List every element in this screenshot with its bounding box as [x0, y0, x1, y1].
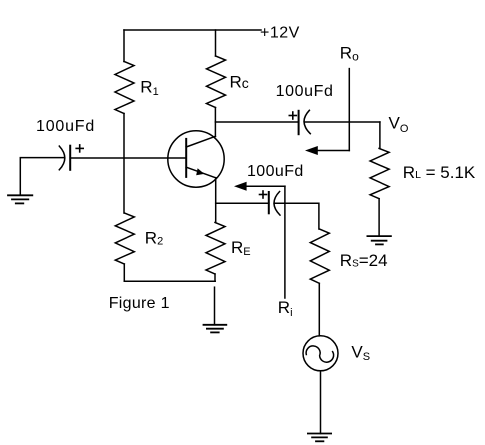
ground RE: bar3	[211, 331, 219, 333]
ground Vs: bar1	[308, 433, 331, 435]
svg-text:Rc: Rc	[230, 72, 249, 91]
transistor Q1 base bar	[185, 139, 187, 177]
transistor Q1 emitter diagonal	[186, 167, 215, 178]
transistor Q1 emitter arrow	[196, 168, 204, 175]
wire C3 to Vo corner	[304, 121, 380, 123]
measurement line Ro vertical	[348, 69, 350, 151]
source Vs sine wave	[306, 346, 333, 362]
svg-text:RS=24: RS=24	[340, 251, 388, 270]
wire Rc top stub	[215, 30, 217, 56]
ground Vs: bar3	[316, 440, 323, 442]
wire RE bottom	[214, 274, 216, 281]
ground RL: bar2	[372, 240, 387, 242]
wire C1 to base	[70, 157, 186, 159]
wire R1 top stub	[123, 30, 125, 62]
wire collector vertical	[214, 108, 216, 137]
wire RL to ground	[378, 199, 380, 236]
transistor Q1 collector diagonal	[186, 136, 215, 147]
capacitor C2 curved plate	[274, 192, 280, 216]
capacitor C1 straight plate	[69, 146, 71, 170]
resistor RE	[206, 223, 225, 275]
svg-text:RL = 5.1K: RL = 5.1K	[403, 163, 476, 182]
svg-text:100uFd: 100uFd	[247, 163, 304, 180]
ground RE stem	[214, 287, 216, 325]
measurement line Ri horizontal	[246, 185, 285, 187]
svg-text:+12V: +12V	[260, 24, 300, 41]
resistor R1	[115, 62, 134, 114]
ground RE: bar1	[204, 324, 227, 326]
ground RE: bar2	[207, 328, 223, 330]
resistor RL	[370, 148, 389, 198]
measurement line Ro horizontal	[317, 150, 349, 152]
wire Vo down to RL	[379, 122, 381, 148]
capacitor C3 curved plate	[304, 110, 310, 133]
ground RL: bar3	[376, 243, 383, 245]
wire input left + down to ground	[20, 158, 63, 196]
wire Rs to Vs	[318, 283, 320, 336]
svg-text:100uFd: 100uFd	[36, 118, 95, 135]
wire R2 bottom	[123, 264, 125, 281]
wire emitter vertical	[215, 178, 217, 223]
resistor Rs	[310, 229, 329, 283]
svg-text:Figure 1: Figure 1	[109, 295, 170, 312]
wire C2 to Rs corner	[274, 203, 319, 229]
wire +12V rail	[124, 29, 261, 31]
capacitor C1 plus sign	[76, 147, 83, 149]
ground input: bar3	[16, 202, 23, 204]
capacitor C1 curved plate	[59, 146, 65, 170]
wire Vs to ground	[320, 371, 322, 434]
capacitor C2 plus sign	[260, 194, 267, 196]
wire bottom horizontal R2-RE	[124, 280, 215, 282]
wire emitter to C2	[216, 202, 269, 204]
source Vs circle	[303, 336, 338, 371]
resistor Rc	[207, 56, 226, 108]
arrowhead Ro	[305, 146, 318, 155]
ground RL: bar1	[367, 235, 391, 237]
transistor Q1 circle	[168, 131, 224, 187]
ground Vs: bar2	[312, 436, 327, 438]
capacitor C3 straight plate	[298, 111, 300, 134]
ground input: bar1	[8, 194, 32, 196]
wire base-node vertical (R1 to R2)	[123, 114, 125, 214]
arrowhead Ri	[234, 182, 247, 191]
capacitor C3 plus sign	[289, 115, 296, 117]
capacitor C2 straight plate	[268, 192, 270, 213]
svg-text:100uFd: 100uFd	[276, 83, 334, 100]
measurement line Ri vertical	[284, 186, 286, 298]
wire collector to output cap	[215, 121, 298, 123]
ground input: bar2	[12, 198, 28, 200]
resistor R2	[115, 213, 134, 264]
